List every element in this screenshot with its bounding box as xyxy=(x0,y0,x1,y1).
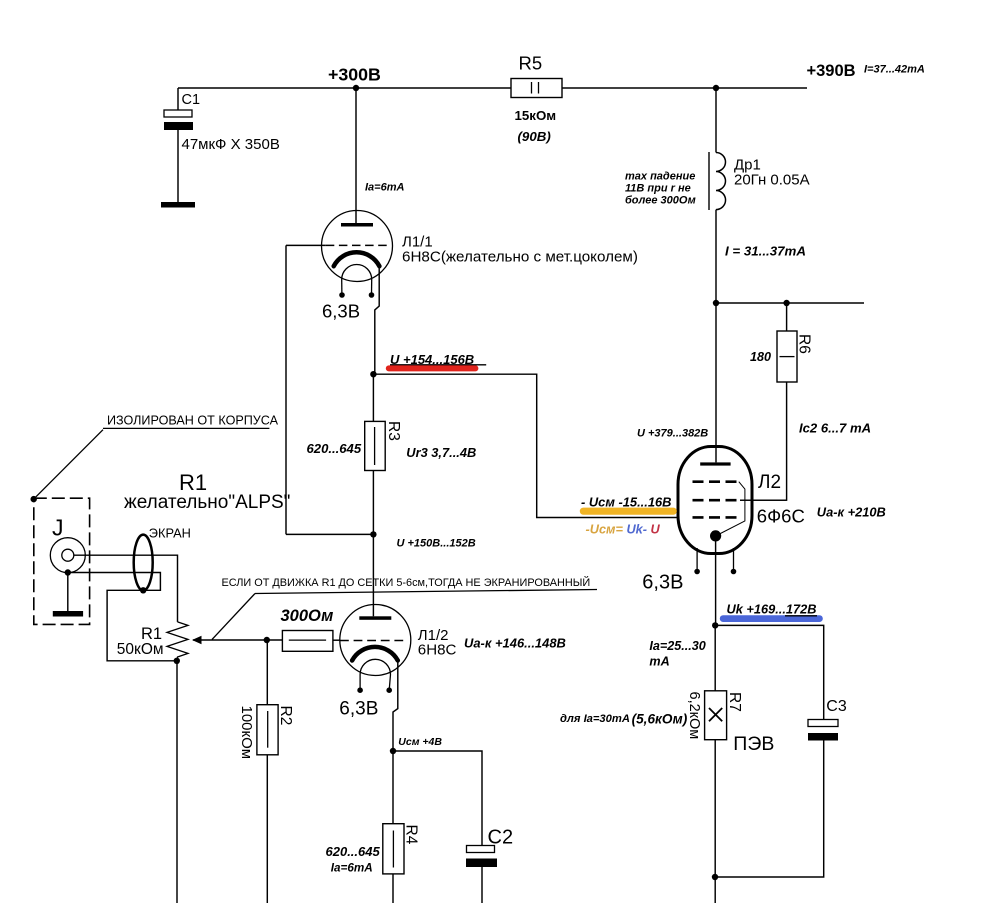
svg-text:R3: R3 xyxy=(385,421,402,441)
wire R2 branch down xyxy=(266,640,268,903)
svg-text:50кОм: 50кОм xyxy=(117,641,164,658)
svg-text:ПЭВ: ПЭВ xyxy=(733,733,774,755)
node Uk highlight xyxy=(720,602,823,623)
wire R7 branch down xyxy=(714,625,716,877)
svg-text:Uа-к +146...148В: Uа-к +146...148В xyxy=(464,636,566,651)
svg-text:C3: C3 xyxy=(826,698,847,715)
svg-text:100кОм: 100кОм xyxy=(238,706,255,760)
svg-text:+300В: +300В xyxy=(328,65,381,85)
wire choke top lead xyxy=(715,88,717,153)
wire +300V/+390V top rail xyxy=(178,87,807,89)
svg-text:- Uсм -15...16В: - Uсм -15...16В xyxy=(581,494,672,509)
svg-text:Ia=25...30: Ia=25...30 xyxy=(649,639,705,653)
svg-text:C1: C1 xyxy=(182,92,201,108)
svg-text:R5: R5 xyxy=(519,53,543,74)
svg-text:R6: R6 xyxy=(796,334,813,354)
svg-text:Ia=6mA: Ia=6mA xyxy=(331,862,373,875)
wire C3 branch xyxy=(715,625,824,719)
wire anode lead L1/1 xyxy=(355,88,357,223)
wire C2 bottom down xyxy=(481,867,483,903)
svg-text:6Н8С: 6Н8С xyxy=(418,641,457,658)
svg-text:6,3В: 6,3В xyxy=(322,301,360,322)
note ESLI text xyxy=(212,576,597,640)
node y303 left xyxy=(713,300,719,306)
svg-text:11В при r не: 11В при r не xyxy=(625,183,691,195)
wire J signal to R1 top xyxy=(74,555,178,622)
svg-text:Uсм +4В: Uсм +4В xyxy=(398,736,442,748)
resistor R4 xyxy=(326,824,420,875)
choke Dr1 xyxy=(709,152,810,210)
shield ellipse EKRAN xyxy=(134,526,191,594)
svg-text:6Н8С(желательно с мет.цоколем): 6Н8С(желательно с мет.цоколем) xyxy=(402,248,638,265)
wire choke bottom lead to L2 anode xyxy=(715,210,717,463)
svg-text:R4: R4 xyxy=(403,825,420,845)
wire J ground lead xyxy=(67,573,69,612)
wire C2 branch xyxy=(393,751,482,846)
node y303 right xyxy=(783,300,789,306)
tube L1/2 xyxy=(339,605,566,720)
wire J shell ground route xyxy=(68,573,177,661)
svg-text:C2: C2 xyxy=(488,827,514,849)
wire C1 bottom lead xyxy=(177,130,179,202)
wire C3 bottom to node xyxy=(715,741,824,878)
svg-text:ЕСЛИ ОТ ДВИЖКА R1 ДО СЕТКИ 5-6: ЕСЛИ ОТ ДВИЖКА R1 ДО СЕТКИ 5-6см,ТОГДА Н… xyxy=(222,576,591,589)
note R1 ALPS xyxy=(124,470,290,513)
wire R1 bottom down xyxy=(176,661,178,903)
wire 300Om to L1/2 grid xyxy=(333,639,340,641)
svg-text:U +150В...152В: U +150В...152В xyxy=(397,538,476,550)
ground J xyxy=(53,611,83,617)
svg-text:U +379...382В: U +379...382В xyxy=(637,428,708,440)
node dot xyxy=(370,371,376,377)
svg-text:-Uсм= Uk- U: -Uсм= Uk- U xyxy=(586,522,661,537)
svg-text:6,2кОм: 6,2кОм xyxy=(686,692,702,740)
svg-text:Uk +169...172В: Uk +169...172В xyxy=(727,602,817,617)
note isolated from chassis xyxy=(31,414,279,503)
node +390V xyxy=(713,85,719,91)
note max drop xyxy=(625,171,696,207)
ground xyxy=(161,202,195,208)
svg-text:620...645: 620...645 xyxy=(326,844,381,859)
svg-text:620...645: 620...645 xyxy=(307,441,362,456)
svg-text:6,3В: 6,3В xyxy=(642,572,683,594)
wire R3 branch xyxy=(372,374,374,534)
wire L1/1 grid lead xyxy=(286,244,326,246)
svg-text:20Гн 0.05А: 20Гн 0.05А xyxy=(734,171,810,188)
svg-text:300Ом: 300Ом xyxy=(281,607,334,625)
tube L1/1 xyxy=(322,211,638,322)
node dot Uk xyxy=(712,622,718,628)
svg-text:47мкФ Х 350В: 47мкФ Х 350В xyxy=(182,136,280,153)
capacitor C2 xyxy=(466,827,513,868)
svg-text:(5,6кОм): (5,6кОм) xyxy=(632,712,688,727)
resistor 300Om xyxy=(281,607,334,651)
node Usm xyxy=(390,748,396,754)
svg-text:Uа-к +210В: Uа-к +210В xyxy=(817,504,886,519)
svg-text:+390В: +390В xyxy=(807,62,856,80)
svg-text:R2: R2 xyxy=(277,706,294,726)
svg-text:15кОм: 15кОм xyxy=(515,108,557,123)
svg-text:6Ф6С: 6Ф6С xyxy=(757,506,805,527)
note Ia 25-30 xyxy=(649,639,705,669)
wire L1/1 cathode lead xyxy=(375,267,379,375)
node +300V xyxy=(353,85,359,91)
svg-text:ЭКРАН: ЭКРАН xyxy=(149,526,191,541)
wire node A horizontal xyxy=(286,533,373,535)
resistor R2 xyxy=(238,705,294,759)
svg-text:R7: R7 xyxy=(726,692,743,712)
wire R6 branch xyxy=(740,303,787,500)
node U154 highlight xyxy=(386,352,486,372)
svg-text:Ia=6mA: Ia=6mA xyxy=(365,182,404,194)
resistor R6 xyxy=(750,331,813,382)
resistor R5 xyxy=(511,53,562,145)
svg-text:для Ia=30mA: для Ia=30mA xyxy=(560,713,630,725)
svg-text:ИЗОЛИРОВАН ОТ КОРПУСА: ИЗОЛИРОВАН ОТ КОРПУСА xyxy=(107,414,279,428)
svg-text:Л2: Л2 xyxy=(758,472,781,493)
node A dot xyxy=(370,531,376,537)
capacitor C1 xyxy=(164,92,280,153)
node R2 junction xyxy=(264,637,270,643)
svg-text:max падение: max падение xyxy=(625,171,695,183)
node bottom xyxy=(712,874,718,880)
wire R1 wiper to 300Om xyxy=(193,639,282,641)
svg-text:желательно"ALPS": желательно"ALPS" xyxy=(124,492,290,513)
resistor R7 xyxy=(686,691,774,755)
svg-text:mA: mA xyxy=(649,655,669,669)
node Usm highlight xyxy=(580,494,677,536)
note dlya Ia xyxy=(560,712,688,727)
svg-text:I = 31...37mA: I = 31...37mA xyxy=(725,244,806,259)
svg-text:(90В): (90В) xyxy=(518,129,552,144)
tube L2 xyxy=(642,447,805,594)
svg-text:180: 180 xyxy=(750,350,771,364)
wire node rail y303 xyxy=(714,302,864,304)
svg-text:Ic2 6...7 mA: Ic2 6...7 mA xyxy=(799,421,871,436)
wire L1/2 cathode lead xyxy=(393,661,398,751)
svg-text:более 300Ом: более 300Ом xyxy=(625,195,696,207)
svg-text:I=37...42mA: I=37...42mA xyxy=(864,64,925,76)
wire R4 branch down xyxy=(392,751,394,903)
wire L1/1 grid to node A xyxy=(285,245,287,534)
svg-text:J: J xyxy=(52,515,64,541)
resistor R3 xyxy=(307,421,477,471)
potentiometer R1 xyxy=(117,622,202,664)
svg-text:6,3В: 6,3В xyxy=(339,698,378,719)
wire coupling to L2 grid xyxy=(373,374,679,517)
connector J xyxy=(34,498,90,624)
wire C1 top lead xyxy=(177,88,179,110)
svg-text:Ur3 3,7...4В: Ur3 3,7...4В xyxy=(406,445,476,460)
capacitor C3 xyxy=(808,698,847,741)
wire L2 cathode down xyxy=(715,536,717,626)
wire node A to L1/2 anode xyxy=(372,534,374,616)
wire bottom down xyxy=(714,877,716,903)
